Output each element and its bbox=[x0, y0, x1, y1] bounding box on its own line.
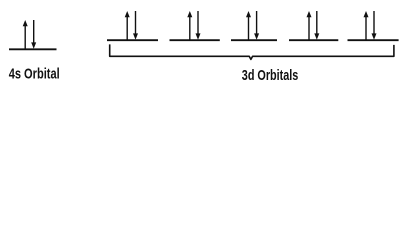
4s down-spin electron arrow bbox=[31, 20, 36, 49]
3d orbital 1 up-spin arrow bbox=[125, 11, 130, 40]
3d orbital 1 down-spin arrow bbox=[133, 11, 138, 40]
3d orbital 4 up-spin arrow bbox=[307, 11, 312, 40]
3d orbital level line 5 bbox=[348, 39, 399, 41]
3d orbital 3 down-spin arrow bbox=[254, 11, 259, 40]
3d orbital 4 down-spin arrow bbox=[314, 11, 319, 40]
3d orbital 3 up-spin arrow bbox=[246, 11, 251, 40]
4s orbital level line bbox=[9, 48, 57, 50]
4s up-spin electron arrow bbox=[23, 20, 28, 49]
3d orbital 5 down-spin arrow bbox=[372, 11, 377, 40]
3d orbital 2 up-spin arrow bbox=[187, 11, 192, 40]
svg-text:3d Orbitals: 3d Orbitals bbox=[242, 67, 298, 84]
3d orbital level line 2 bbox=[170, 39, 220, 41]
3d orbital level line 4 bbox=[289, 39, 338, 41]
3d orbital level line 3 bbox=[231, 39, 277, 41]
3d orbital 5 up-spin arrow bbox=[364, 11, 369, 40]
svg-text:4s Orbital: 4s Orbital bbox=[9, 65, 60, 82]
3d orbital level line 1 bbox=[107, 39, 158, 41]
3d orbital 2 down-spin arrow bbox=[196, 11, 201, 40]
brace grouping the five 3d orbitals bbox=[110, 44, 394, 59]
